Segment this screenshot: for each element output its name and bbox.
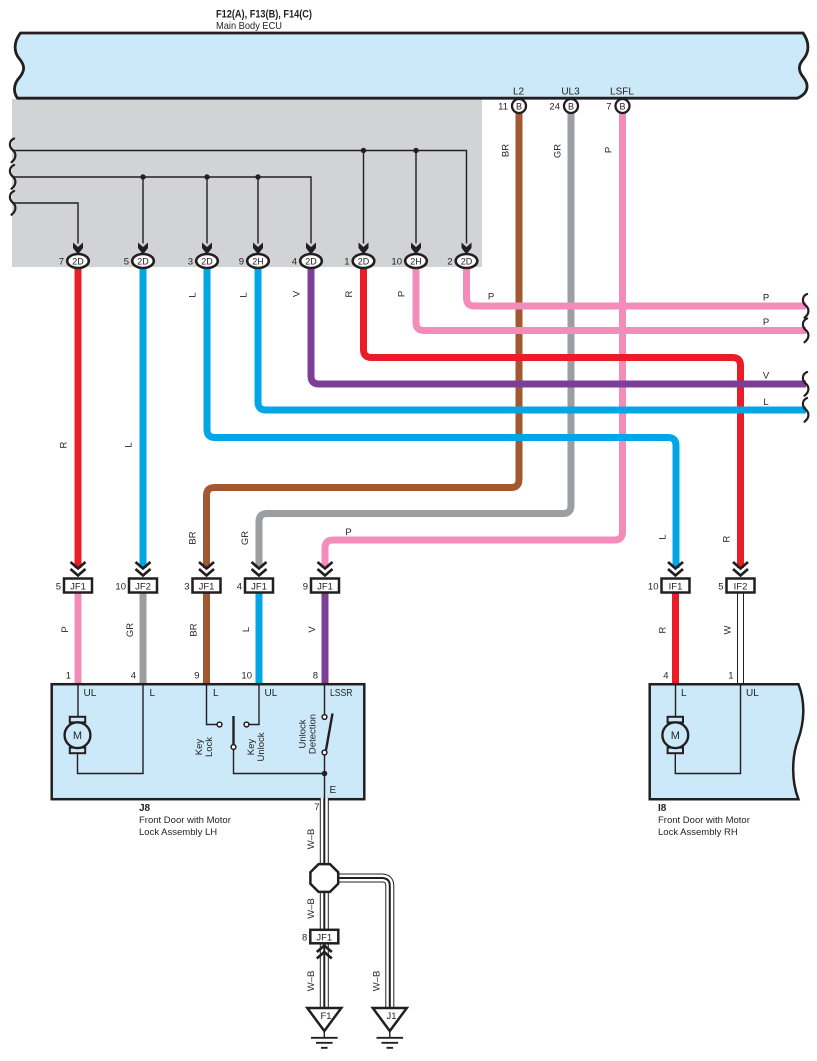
svg-text:L: L bbox=[763, 397, 768, 408]
arrow into 3 2D bbox=[202, 243, 212, 255]
svg-text:10: 10 bbox=[648, 582, 659, 593]
motor M (J8) bbox=[65, 717, 91, 753]
ECU title bbox=[216, 9, 312, 33]
svg-text:W–B: W–B bbox=[306, 829, 317, 850]
svg-text:5: 5 bbox=[124, 256, 129, 267]
svg-text:L: L bbox=[213, 688, 219, 699]
svg-text:J8: J8 bbox=[139, 803, 151, 814]
svg-text:Lock Assembly RH: Lock Assembly RH bbox=[658, 827, 738, 838]
svg-text:E: E bbox=[330, 785, 337, 796]
svg-text:3: 3 bbox=[184, 582, 189, 593]
arrowheads into connectors bbox=[73, 243, 472, 255]
svg-text:L: L bbox=[239, 292, 250, 297]
connector oval 5 2D bbox=[124, 254, 154, 268]
svg-text:Front Door with Motor: Front Door with Motor bbox=[658, 815, 750, 826]
chevron 9 JF1 bbox=[318, 562, 333, 576]
connector oval 1 2D bbox=[344, 254, 374, 268]
svg-text:11: 11 bbox=[498, 102, 508, 113]
svg-text:L: L bbox=[241, 627, 252, 632]
svg-text:GR: GR bbox=[125, 623, 136, 637]
drop wire to pin 3 bbox=[206, 177, 208, 244]
connector oval 3 2D bbox=[188, 254, 218, 268]
svg-text:IF1: IF1 bbox=[669, 582, 683, 593]
wire W-B from splice to J1 ground bbox=[336, 878, 390, 1008]
svg-text:Unlock: Unlock bbox=[256, 732, 267, 761]
junction dot bus2/pin3 wire bbox=[204, 174, 209, 179]
svg-text:Lock: Lock bbox=[204, 737, 215, 757]
svg-text:1: 1 bbox=[344, 256, 349, 267]
harness shield region (grey) bbox=[12, 99, 482, 267]
wire P from LSFL 7B to 9 JF1 bbox=[325, 110, 623, 568]
svg-text:JF1: JF1 bbox=[70, 582, 86, 593]
wire W to I8 pin 1 bbox=[737, 593, 744, 685]
chevron 5 IF2 bbox=[733, 562, 748, 576]
svg-text:I8: I8 bbox=[658, 803, 667, 814]
arrow into 1 2D bbox=[359, 243, 369, 255]
wire V from 4 2D to right break bbox=[311, 264, 806, 384]
wire W-B from J8 pin 7 to splice bbox=[320, 798, 329, 866]
J8 motor circuit wires bbox=[78, 684, 144, 774]
svg-text:2H: 2H bbox=[410, 256, 422, 266]
svg-text:W: W bbox=[723, 625, 734, 634]
arrow into 9 2H bbox=[253, 243, 263, 255]
key lock contact bbox=[217, 722, 222, 727]
svg-text:7: 7 bbox=[314, 802, 319, 813]
I8 internal pin labels bbox=[681, 688, 759, 699]
svg-text:P: P bbox=[488, 292, 494, 303]
svg-text:JF1: JF1 bbox=[317, 582, 333, 593]
svg-text:JF1: JF1 bbox=[316, 933, 332, 944]
svg-text:2: 2 bbox=[447, 256, 452, 267]
break mark bus 3 bbox=[10, 191, 16, 215]
connector oval 7 2D bbox=[59, 254, 89, 268]
svg-text:Lock Assembly LH: Lock Assembly LH bbox=[139, 827, 217, 838]
svg-text:5: 5 bbox=[718, 582, 723, 593]
svg-text:P: P bbox=[763, 317, 769, 328]
svg-text:P: P bbox=[60, 626, 71, 632]
svg-text:P: P bbox=[604, 147, 615, 153]
key lock switch wiring bbox=[207, 684, 218, 725]
svg-text:1: 1 bbox=[66, 671, 71, 682]
svg-text:V: V bbox=[763, 371, 770, 382]
svg-text:9: 9 bbox=[239, 256, 244, 267]
ground F1 bbox=[307, 1008, 341, 1048]
svg-text:P: P bbox=[397, 291, 408, 297]
svg-text:10: 10 bbox=[115, 582, 126, 593]
chevron 3 JF1 bbox=[199, 562, 214, 576]
switch name labels bbox=[194, 714, 319, 762]
svg-text:IF2: IF2 bbox=[734, 582, 748, 593]
junction dot bus2/pin9 wire bbox=[255, 174, 260, 179]
wire V to J8 pin 8 bbox=[322, 593, 329, 685]
junction box 5 JF1 bbox=[56, 579, 92, 593]
drop wire to pin 1 bbox=[363, 151, 365, 244]
junction box 10 IF1 bbox=[648, 579, 690, 593]
svg-text:UL: UL bbox=[746, 688, 759, 699]
junction box 4 JF1 bbox=[237, 579, 273, 593]
svg-text:F1: F1 bbox=[320, 1011, 331, 1022]
chevron 4 JF1 bbox=[252, 562, 267, 576]
drop wire to pin 9 bbox=[257, 177, 259, 244]
wire GR to J8 pin 4 bbox=[140, 593, 147, 685]
svg-text:W–B: W–B bbox=[372, 971, 383, 992]
connector oval 4 2D bbox=[292, 254, 322, 268]
svg-text:7: 7 bbox=[606, 102, 611, 113]
svg-text:8: 8 bbox=[302, 933, 307, 944]
svg-text:5: 5 bbox=[56, 582, 61, 593]
connector oval 2 2D bbox=[447, 254, 477, 268]
svg-text:10: 10 bbox=[241, 671, 252, 682]
J8 internal pin labels bbox=[84, 688, 353, 796]
junction dot node E bbox=[322, 771, 328, 777]
unlock detection switch wiring bbox=[324, 684, 326, 799]
svg-text:GR: GR bbox=[553, 144, 564, 158]
motor M (I8) bbox=[662, 717, 688, 753]
svg-text:4: 4 bbox=[663, 671, 668, 682]
svg-text:UL3: UL3 bbox=[561, 87, 580, 98]
junction box 5 IF2 bbox=[718, 579, 754, 593]
svg-text:Front Door with Motor: Front Door with Motor bbox=[139, 815, 231, 826]
lower wire labels bbox=[60, 623, 734, 637]
svg-text:JF2: JF2 bbox=[135, 582, 151, 593]
connector oval 10 2H bbox=[391, 254, 426, 268]
svg-text:P: P bbox=[345, 527, 351, 538]
wire BR to J8 pin 9 bbox=[203, 593, 210, 685]
key switch blade bbox=[232, 716, 234, 745]
svg-text:4: 4 bbox=[292, 256, 297, 267]
svg-text:2D: 2D bbox=[305, 256, 317, 266]
svg-text:B: B bbox=[568, 101, 574, 111]
connector oval 9 2H bbox=[239, 254, 269, 268]
chevron 10 IF1 bbox=[668, 562, 683, 576]
junction box 10 JF2 bbox=[115, 579, 157, 593]
wire L to J8 pin 10 bbox=[256, 593, 263, 685]
svg-text:8: 8 bbox=[313, 671, 318, 682]
chevron (up) below 8 JF1 bbox=[317, 946, 332, 959]
svg-text:4: 4 bbox=[237, 582, 242, 593]
junction connector row (chevrons + boxes) bbox=[71, 562, 749, 576]
unlock detection lower contact bbox=[322, 750, 327, 755]
break mark bus 2 bbox=[10, 165, 16, 189]
wire R from 7 2D to 5 JF1 bbox=[75, 264, 82, 568]
wire colour labels (rotated) bbox=[59, 144, 770, 545]
svg-text:V: V bbox=[307, 626, 318, 633]
W-B labels bbox=[306, 829, 383, 992]
wire L from 9 2H to right break bbox=[258, 264, 806, 410]
svg-text:JF1: JF1 bbox=[199, 582, 215, 593]
ECU pin L2 11 B bbox=[498, 87, 526, 114]
svg-text:M: M bbox=[671, 730, 680, 742]
wire P from 2 2D to right break bbox=[467, 264, 807, 306]
junction dot bus2/pin5 wire bbox=[140, 174, 145, 179]
unlock detection upper contact bbox=[322, 715, 327, 720]
drop wire to pin 5 bbox=[142, 177, 144, 244]
arrow into 7 2D bbox=[73, 243, 83, 255]
right edge break marks on P P V L wires bbox=[803, 294, 809, 318]
svg-text:L: L bbox=[150, 688, 156, 699]
wire P from 10 2H to right break bbox=[416, 264, 806, 331]
I8 motor circuit wires bbox=[675, 684, 740, 774]
svg-text:24: 24 bbox=[549, 102, 560, 113]
unlock detection blade bbox=[326, 714, 333, 751]
component J8 Front Door with Motor Lock Assembly LH bbox=[52, 684, 365, 799]
drop wire to pin 10 bbox=[415, 151, 417, 244]
svg-text:L2: L2 bbox=[513, 87, 525, 98]
svg-text:3: 3 bbox=[188, 256, 193, 267]
svg-text:2D: 2D bbox=[461, 256, 473, 266]
wire W-B from splice to 8 JF1 bbox=[320, 890, 329, 931]
svg-text:2H: 2H bbox=[252, 256, 264, 266]
component I8 Front Door with Motor Lock Assembly RH (torn right edge) bbox=[650, 684, 804, 799]
svg-text:L: L bbox=[658, 534, 669, 539]
svg-text:BR: BR bbox=[501, 144, 512, 157]
svg-text:L: L bbox=[188, 292, 199, 297]
svg-text:P: P bbox=[763, 293, 769, 304]
svg-text:Main Body ECU: Main Body ECU bbox=[216, 20, 282, 32]
J8 pin numbers bbox=[66, 671, 734, 682]
arrow into 10 2H bbox=[411, 243, 421, 255]
svg-text:UL: UL bbox=[265, 688, 278, 699]
svg-text:9: 9 bbox=[303, 582, 308, 593]
ECU block Main Body ECU (torn band) bbox=[15, 33, 808, 98]
svg-text:LSFL: LSFL bbox=[610, 87, 634, 98]
svg-text:GR: GR bbox=[240, 531, 251, 545]
wire P to J8 pin 1 bbox=[75, 593, 82, 685]
key switch common wire bbox=[234, 750, 325, 774]
svg-text:W–B: W–B bbox=[306, 898, 317, 919]
svg-text:LSSR: LSSR bbox=[330, 688, 353, 699]
svg-text:B: B bbox=[516, 101, 522, 111]
bus wire 3 (to pin 7) bbox=[12, 203, 78, 244]
svg-text:BR: BR bbox=[189, 623, 200, 636]
svg-text:9: 9 bbox=[194, 671, 199, 682]
svg-text:10: 10 bbox=[391, 256, 402, 267]
junction box 8 JF1 bbox=[302, 930, 338, 944]
svg-text:M: M bbox=[73, 730, 82, 742]
break mark bus 1 bbox=[10, 139, 16, 163]
svg-text:R: R bbox=[344, 290, 355, 297]
bus wire 2 (to pins 5,3,9,4) bbox=[12, 177, 311, 244]
junction dot bus1/pin10 wire bbox=[413, 148, 418, 153]
svg-text:2D: 2D bbox=[137, 256, 149, 266]
svg-text:2D: 2D bbox=[72, 256, 84, 266]
wire R from 1 2D to 5 IF2 bbox=[364, 264, 741, 568]
svg-text:UL: UL bbox=[84, 688, 97, 699]
svg-text:2D: 2D bbox=[358, 256, 370, 266]
svg-text:R: R bbox=[722, 535, 733, 542]
svg-text:7: 7 bbox=[59, 256, 64, 267]
key unlock contact bbox=[244, 722, 249, 727]
svg-text:JF1: JF1 bbox=[251, 582, 267, 593]
wire W-B from 8 JF1 to F1 ground bbox=[320, 942, 329, 1008]
svg-text:L: L bbox=[124, 442, 135, 447]
chevron 10 JF2 bbox=[136, 562, 151, 576]
svg-text:L: L bbox=[681, 688, 687, 699]
wire L from 5 2D to 10 JF2 bbox=[140, 264, 147, 568]
ECU pin LSFL 7 B bbox=[606, 87, 634, 114]
chevron 5 JF1 bbox=[71, 562, 86, 576]
junction box 9 JF1 bbox=[303, 579, 339, 593]
svg-text:Detection: Detection bbox=[308, 714, 319, 754]
svg-text:4: 4 bbox=[131, 671, 136, 682]
svg-text:R: R bbox=[658, 626, 669, 633]
junction box 3 JF1 bbox=[184, 579, 220, 593]
splice octagon bbox=[310, 864, 338, 892]
I8 block caption bbox=[658, 803, 750, 838]
ground J1 bbox=[373, 1008, 407, 1048]
wire BR from L2 11B to 3 JF1 bbox=[207, 110, 520, 568]
J8 block caption bbox=[139, 803, 231, 838]
svg-text:R: R bbox=[59, 441, 70, 448]
arrow into 4 2D bbox=[306, 243, 316, 255]
junction dot bus1/pin1 wire bbox=[361, 148, 366, 153]
wire R to I8 pin 4 bbox=[672, 593, 679, 685]
svg-text:2D: 2D bbox=[201, 256, 213, 266]
arrow into 2 2D bbox=[462, 243, 472, 255]
wire L from 3 2D to 10 IF1 bbox=[207, 264, 676, 568]
ECU pin UL3 24 B bbox=[549, 87, 580, 114]
svg-text:B: B bbox=[619, 101, 625, 111]
bus wire 1 (to pins 1,10,2) bbox=[12, 151, 467, 244]
key unlock switch wiring bbox=[249, 684, 259, 725]
svg-text:BR: BR bbox=[188, 531, 199, 544]
svg-text:V: V bbox=[292, 290, 303, 297]
svg-text:J1: J1 bbox=[386, 1011, 396, 1022]
wire GR from UL3 24B to 4 JF1 bbox=[259, 110, 571, 568]
key switch moving contact bbox=[231, 745, 236, 750]
arrow into 5 2D bbox=[138, 243, 148, 255]
svg-text:W–B: W–B bbox=[306, 971, 317, 992]
svg-text:F12(A), F13(B), F14(C): F12(A), F13(B), F14(C) bbox=[216, 9, 312, 21]
svg-text:1: 1 bbox=[728, 671, 733, 682]
